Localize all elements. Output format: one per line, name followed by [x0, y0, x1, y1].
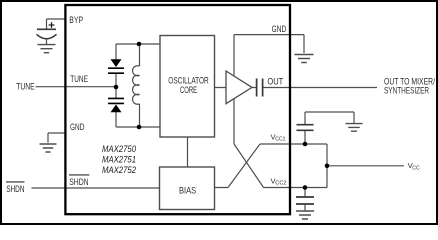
svg-text:MAX2750: MAX2750 [102, 144, 136, 154]
svg-text:BYP: BYP [69, 15, 83, 26]
svg-text:SHDN: SHDN [69, 177, 88, 188]
svg-text:BIAS: BIAS [179, 186, 196, 197]
svg-text:CC1: CC1 [275, 137, 285, 143]
svg-text:MAX2751: MAX2751 [102, 155, 136, 165]
svg-text:CC: CC [412, 166, 419, 172]
svg-text:GND: GND [272, 24, 287, 35]
svg-text:SHDN: SHDN [6, 184, 24, 195]
svg-text:OUT: OUT [267, 76, 283, 87]
svg-text:GND: GND [70, 122, 84, 133]
svg-text:TUNE: TUNE [70, 74, 88, 85]
svg-text:SYNTHESIZER: SYNTHESIZER [384, 85, 429, 95]
svg-text:MAX2752: MAX2752 [102, 165, 136, 175]
svg-text:CORE: CORE [180, 85, 197, 96]
svg-text:TUNE: TUNE [16, 82, 35, 93]
svg-text:CC2: CC2 [275, 181, 286, 187]
